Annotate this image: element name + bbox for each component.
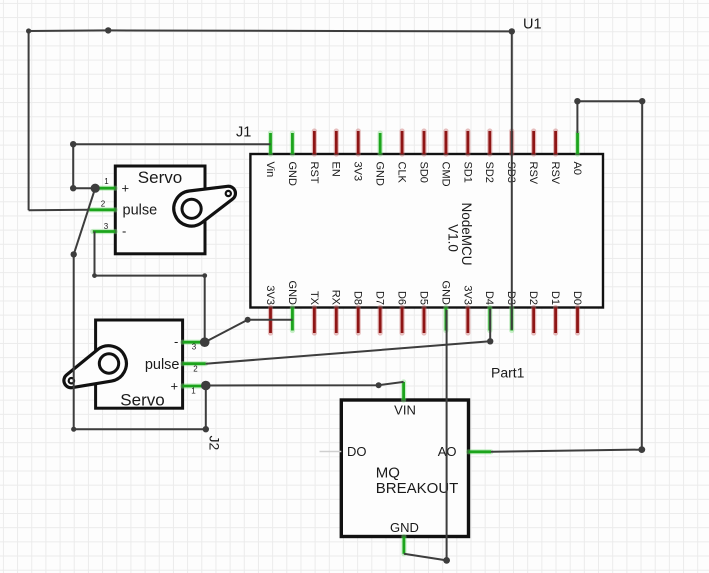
svg-text:3V3: 3V3 [352, 162, 364, 182]
wire: servo J2 - to U1 GND (bottom) [205, 320, 293, 342]
svg-text:pulse: pulse [123, 203, 158, 219]
svg-text:V1.0: V1.0 [446, 224, 461, 252]
svg-text:GND: GND [286, 281, 298, 306]
MQ breakout title [376, 465, 459, 498]
wire: servo J1 - to servo J2 - [95, 232, 205, 343]
MQ pin AO [438, 444, 491, 459]
node A0 corner right [639, 98, 645, 104]
U1 top pin RSV [527, 131, 539, 185]
svg-text:EN: EN [330, 162, 342, 177]
svg-text:D2: D2 [527, 291, 539, 305]
servo J2 pin 2 (pulse) [145, 357, 206, 374]
svg-text:+: + [122, 181, 130, 196]
svg-text:1: 1 [191, 387, 196, 396]
U1 bottom pin RX [330, 290, 342, 333]
U1 top pin 3V3 [352, 131, 364, 181]
servo J2 horn [64, 346, 126, 388]
svg-text:GND: GND [439, 281, 451, 306]
U1 top pin RSV [549, 131, 561, 185]
MQ breakout body [341, 400, 468, 537]
junction servo J1 pin1 [91, 184, 100, 193]
servo J1 horn [174, 186, 236, 226]
svg-text:Part1: Part1 [491, 365, 525, 381]
node top joint [105, 27, 111, 33]
wire: U1 GND to MQ GND [404, 310, 447, 560]
node Vin corner [70, 141, 76, 147]
servo J2 pin 3 (-) [174, 334, 202, 352]
wire: left vertical to servo J2 + [74, 254, 206, 429]
U1 top pin A0 [571, 133, 583, 175]
svg-text:J1: J1 [236, 125, 251, 141]
node GND wire joint [245, 317, 251, 323]
svg-text:GND: GND [286, 162, 298, 187]
node J2 bottom corner [203, 426, 209, 432]
servo J1 pin 1 (+) [95, 177, 129, 196]
U1 top pin GND [286, 133, 298, 186]
svg-text:TX: TX [308, 291, 320, 306]
svg-text:-: - [122, 224, 126, 239]
U1 top pin SD2 [483, 131, 495, 183]
U1 top pin RST [308, 131, 320, 184]
U1 top pin SD0 [417, 131, 429, 183]
svg-text:D4: D4 [483, 291, 495, 305]
svg-text:2: 2 [193, 365, 198, 374]
svg-text:3: 3 [192, 343, 197, 352]
IC U1 name label [446, 202, 475, 265]
junction servo J2 pin3 [200, 337, 210, 347]
U1 bottom pin D3 [505, 291, 517, 331]
U1 top pin SD1 [461, 131, 473, 183]
node left diag end [71, 251, 77, 257]
U1 top pin CMD [439, 131, 451, 187]
svg-text:DO: DO [347, 444, 367, 459]
wire: servo J1 + down-left diagonal [74, 188, 96, 254]
svg-text:RX: RX [330, 290, 342, 306]
U1 bottom pin D8 [352, 291, 364, 333]
U1 bottom pin D0 [571, 291, 583, 333]
U1 bottom pin 3V3 [461, 285, 473, 333]
U1 top pin GND [374, 133, 386, 186]
wire: servo J2 pulse to U1 D4 [206, 309, 491, 364]
node servo J1 pin3 corner2 [202, 273, 207, 278]
U1 bottom pin D5 [417, 291, 429, 333]
U1 bottom pin 3V3 [264, 285, 276, 333]
MQ pin VIN [394, 382, 416, 418]
svg-text:SD1: SD1 [461, 162, 473, 183]
node A0 corner left [574, 98, 580, 104]
wire: servo J1 pulse from left vertical [29, 209, 90, 212]
node Vin lower corner [70, 185, 76, 191]
svg-text:D1: D1 [549, 291, 561, 305]
U1 bottom pin GND [286, 281, 298, 331]
svg-text:3V3: 3V3 [264, 285, 276, 305]
node servo J1 pin3 corner [92, 273, 97, 278]
svg-text:SD2: SD2 [483, 162, 495, 183]
junction servo J2 pin1 [201, 381, 211, 391]
node D4 joint [487, 338, 493, 344]
servo J2 body [96, 320, 183, 408]
svg-text:D5: D5 [417, 291, 429, 305]
U1 top pin CLK [396, 131, 408, 184]
svg-text:D7: D7 [374, 291, 386, 305]
U1 bottom pin D6 [396, 291, 408, 333]
svg-text:D0: D0 [571, 291, 583, 305]
svg-text:CLK: CLK [396, 162, 408, 184]
wire: top-left net to U1/SD3-D3 [29, 30, 512, 329]
svg-text:2: 2 [101, 200, 106, 209]
wire: servo J2 + to MQ VIN [206, 382, 404, 386]
svg-text:RSV: RSV [549, 162, 561, 185]
svg-text:GND: GND [374, 162, 386, 187]
U1 bottom pin D7 [374, 291, 386, 333]
servo J1 pin 3 (-) [93, 222, 127, 239]
servo J2 pin 1 (+) [171, 379, 204, 396]
U1 bottom pin GND [439, 281, 451, 331]
svg-text:A0: A0 [571, 162, 583, 175]
svg-text:SD0: SD0 [417, 162, 429, 183]
svg-text:Vin: Vin [264, 162, 276, 178]
node MQ GND corner [443, 557, 450, 564]
svg-text:D8: D8 [352, 291, 364, 305]
IC U1 NodeMCU body [250, 154, 603, 308]
node top-left corner [26, 28, 31, 33]
node VIN wire joint [376, 382, 382, 388]
svg-text:RSV: RSV [527, 162, 539, 185]
svg-text:J2: J2 [207, 436, 223, 451]
svg-text:-: - [174, 334, 178, 349]
svg-text:RST: RST [308, 162, 320, 184]
svg-text:GND: GND [390, 520, 419, 535]
servo J1 body [115, 166, 205, 254]
node U1 wire corner [509, 28, 515, 34]
svg-text:Servo: Servo [138, 168, 182, 187]
svg-text:1: 1 [104, 177, 109, 186]
svg-text:+: + [171, 379, 179, 394]
svg-text:U1: U1 [523, 17, 542, 33]
svg-text:MQ: MQ [376, 465, 400, 482]
U1 top pin SD3 [505, 131, 517, 183]
svg-text:VIN: VIN [394, 403, 416, 418]
node AO corner [638, 446, 645, 453]
MQ pin GND [390, 520, 419, 554]
wire: U1 A0 to MQ AO [491, 101, 642, 452]
U1 bottom pin D4 [483, 291, 495, 331]
node left bottom corner [71, 427, 76, 432]
U1 top pin Vin [264, 133, 276, 177]
svg-text:CMD: CMD [439, 162, 451, 187]
svg-text:D6: D6 [396, 291, 408, 305]
svg-text:pulse: pulse [145, 357, 180, 373]
U1 bottom pin D1 [549, 291, 561, 333]
MQ pin DO (unconnected) [320, 444, 367, 459]
servo J1 pin 2 (pulse) [89, 200, 157, 219]
U1 top pin EN [330, 131, 342, 177]
svg-text:Servo: Servo [120, 391, 164, 410]
U1 bottom pin D2 [527, 291, 539, 333]
wire: J1/Vin horizontal [73, 144, 270, 188]
U1 bottom pin TX [308, 291, 320, 333]
svg-text:3V3: 3V3 [461, 285, 473, 305]
svg-text:3: 3 [104, 222, 109, 231]
